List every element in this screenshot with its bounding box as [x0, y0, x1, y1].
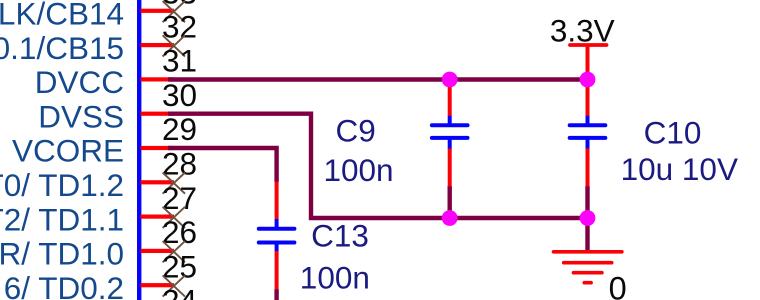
- no-connect X on pin 27: [163, 173, 185, 194]
- svg-text:0: 0: [609, 271, 627, 300]
- capacitor C10 top plate connector stub: [586, 116, 590, 125]
- svg-text:0.1/CB15: 0.1/CB15: [0, 30, 124, 66]
- wire: VCORE net (pin 28 right then down to C13): [168, 148, 277, 182]
- capacitor C10 bottom plate: [570, 136, 606, 140]
- capacitor C9 bottom plate: [432, 136, 468, 140]
- capacitor C9 top plate connector stub: [448, 116, 452, 125]
- svg-text:C9: C9: [336, 112, 376, 148]
- capacitor C10 bottom plate connector stub: [586, 138, 590, 149]
- no-connect X on pin 24: [163, 275, 185, 296]
- pin 25 stub: [141, 249, 175, 253]
- no-connect X on pin 25: [163, 241, 185, 262]
- svg-text:LK/CB14: LK/CB14: [0, 0, 124, 32]
- svg-text:6/ TD0.2: 6/ TD0.2: [4, 270, 124, 300]
- junction dot: DVCC rail / C9 top: [442, 72, 458, 88]
- capacitor C13 bottom plate: [259, 241, 295, 245]
- ground symbol: bar 2: [564, 261, 612, 265]
- ground symbol: bar 3: [574, 271, 602, 275]
- svg-text:VCORE: VCORE: [12, 133, 124, 169]
- junction dot: DVSS rail / C10 bottom / ground: [580, 210, 596, 226]
- svg-text:100n: 100n: [300, 259, 370, 295]
- capacitor C9 top plate: [432, 123, 468, 127]
- svg-text:C13: C13: [311, 218, 369, 254]
- capacitor C10 top plate: [570, 123, 606, 127]
- svg-text:30: 30: [162, 77, 197, 113]
- capacitor C10 top lead (red, from 3.3V bar through junction): [586, 45, 590, 116]
- power symbol 3.3V: bar: [570, 43, 607, 47]
- capacitor C9 bottom lead (red): [448, 149, 452, 187]
- capacitor C13 top plate: [259, 227, 295, 231]
- junction dot: DVSS rail / C9 bottom: [442, 210, 458, 226]
- svg-text:24: 24: [162, 283, 197, 300]
- wire: DVCC net horizontal (pin 30 to 3.3V rail): [168, 77, 588, 81]
- wire: DVSS net (pin 29 right, down, and across bottom to ground): [168, 114, 588, 218]
- IC body edge (microcontroller left border): [137, 0, 141, 300]
- capacitor C13 top plate connector stub: [275, 219, 279, 229]
- junction dot: DVCC rail / 3.3V / C10 top: [580, 72, 596, 88]
- svg-text:DVCC: DVCC: [35, 64, 124, 100]
- capacitor C10 bottom lead (red): [586, 149, 590, 187]
- pin 27 stub: [141, 180, 175, 184]
- ground symbol: bar 1: [554, 250, 622, 254]
- pin 29 stub: [141, 112, 175, 116]
- no-connect X on pin 32: [163, 1, 185, 22]
- no-connect X on pin 26: [163, 207, 185, 228]
- wire: net segment C10 bottom lead to bottom rail: [585, 186, 589, 218]
- wire: ground stub below junction: [585, 218, 589, 251]
- svg-text:T2/ TD1.1: T2/ TD1.1: [0, 201, 124, 237]
- svg-text:100n: 100n: [324, 152, 394, 188]
- svg-text:29: 29: [162, 111, 197, 147]
- svg-text:3.3V: 3.3V: [550, 13, 615, 49]
- wire: net segment C9 bottom lead to bottom rail: [448, 186, 452, 218]
- capacitor C9 bottom plate connector stub: [448, 138, 452, 149]
- no-connect X on pin 31: [163, 35, 185, 56]
- capacitor C13 top lead (red): [275, 182, 279, 220]
- pin 26 stub: [141, 215, 175, 219]
- capacitor C13 bottom plate connector stub: [275, 243, 279, 252]
- pin 30 stub: [141, 77, 175, 81]
- svg-text:T0/ TD1.2: T0/ TD1.2: [0, 167, 124, 203]
- svg-text:31: 31: [162, 43, 197, 79]
- pin 24 stub: [141, 283, 175, 287]
- svg-text:C10: C10: [644, 115, 702, 151]
- ground symbol: bar 4: [584, 281, 591, 285]
- capacitor C9 top lead (red): [448, 80, 452, 117]
- svg-text:10u 10V: 10u 10V: [621, 151, 738, 187]
- pin 31 stub: [141, 43, 175, 47]
- capacitor C13 bottom lead (red): [275, 251, 279, 290]
- svg-text:R/ TD1.0: R/ TD1.0: [0, 236, 124, 272]
- svg-text:DVSS: DVSS: [38, 98, 124, 134]
- pin 28 stub: [141, 146, 175, 150]
- pin 32 stub: [141, 9, 175, 13]
- wire: VCORE net below C13 (to off-screen bottom): [274, 289, 278, 300]
